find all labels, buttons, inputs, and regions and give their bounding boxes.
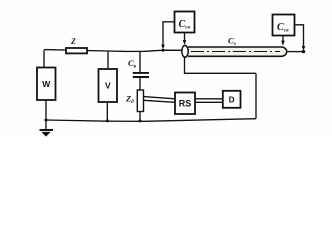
box Csv1: [175, 12, 195, 33]
impedance Zd box: [137, 90, 143, 112]
arrowhead Csv2 to core node: [302, 46, 306, 51]
wire double line Zd to RS: [144, 97, 176, 103]
node W ground junction: [44, 118, 47, 121]
box D: [223, 91, 241, 108]
cable body Cx: [188, 47, 287, 56]
svg-text:Cх: Cх: [228, 36, 237, 48]
wire left vertical drop to W: [43, 50, 45, 67]
wire top bus from left corner to cable left end: [44, 50, 183, 52]
wire between Ck and Zd: [139, 78, 141, 91]
wire from Csv1 left side down to top bus: [163, 22, 175, 45]
wire Ck branch top: [139, 51, 141, 72]
wire V branch top: [107, 51, 109, 69]
wire below W to ground node: [45, 100, 47, 130]
box Csv2: [273, 15, 295, 36]
svg-text:Z: Z: [70, 37, 76, 46]
node core right: [302, 50, 305, 53]
arrowhead Csv1 to ellipse: [183, 40, 187, 45]
arrowhead Csv2 to cable: [281, 41, 285, 46]
node Zd bottom junction: [139, 119, 142, 122]
cable left end ellipse: [182, 45, 188, 57]
meter W: [37, 68, 56, 101]
node on top bus: [162, 49, 165, 52]
svg-text:V: V: [105, 81, 111, 91]
wire from Csv1 bottom to cable end ellipse: [184, 33, 186, 41]
wire from Csv2 bottom to cable sheath: [282, 36, 284, 42]
svg-text:D: D: [229, 96, 235, 105]
capacitor Ck plates: [133, 73, 149, 77]
svg-text:Cк: Cк: [128, 58, 137, 70]
meter V: [99, 69, 118, 102]
wire shield return under cable: [185, 57, 257, 73]
ground: [40, 129, 54, 137]
svg-text:Zд: Zд: [125, 94, 134, 106]
cable axis dash-dot line: [191, 51, 280, 53]
wire from Csv2 right side down to core node: [295, 25, 304, 47]
svg-text:RS: RS: [179, 99, 192, 109]
wire V branch bottom: [106, 102, 108, 121]
svg-text:W: W: [42, 79, 51, 89]
arrowhead Csv1 to top bus: [161, 45, 165, 50]
node V bottom junction: [106, 119, 109, 122]
wire cable core tail to node: [288, 51, 304, 53]
wire double line RS to D: [195, 99, 223, 103]
wire bottom bus: [46, 119, 256, 122]
resistor Z: [66, 48, 87, 53]
wire right vertical of loop: [255, 73, 257, 118]
wire Zd bottom to bus: [139, 112, 141, 122]
box RS: [175, 93, 195, 115]
